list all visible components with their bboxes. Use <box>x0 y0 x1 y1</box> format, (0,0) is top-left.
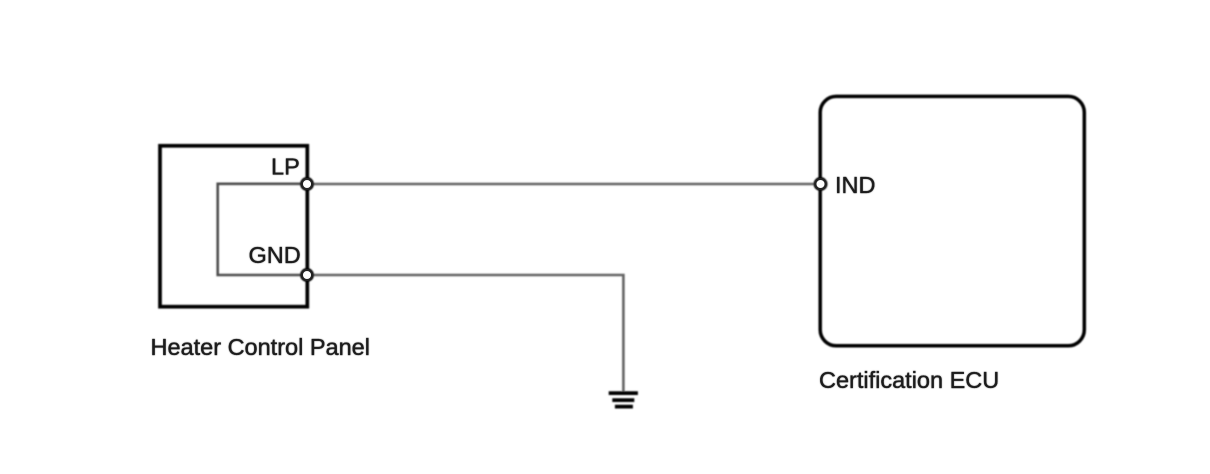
terminal LP <box>302 179 313 190</box>
wire LP to IND <box>307 183 819 186</box>
ground <box>609 393 638 407</box>
svg-text:GND: GND <box>249 242 301 268</box>
certification ECU box <box>820 96 1084 345</box>
terminal GND <box>302 270 313 281</box>
terminal GND ring <box>302 270 312 280</box>
svg-text:LP: LP <box>271 154 300 180</box>
svg-text:Heater Control Panel: Heater Control Panel <box>151 334 370 360</box>
ground bar 3 <box>615 405 633 409</box>
terminal IND ring <box>815 179 825 189</box>
terminal IND <box>815 179 826 190</box>
ground bar 2 <box>612 398 634 402</box>
connector inner box <box>218 184 307 275</box>
text halos (soft copies) <box>151 154 1000 394</box>
heater control panel box <box>160 146 307 307</box>
terminal LP ring <box>302 179 312 189</box>
wire GND to ground <box>307 275 623 391</box>
svg-text:Certification ECU: Certification ECU <box>819 367 999 393</box>
svg-text:IND: IND <box>835 172 875 198</box>
ground bar 1 <box>609 391 638 395</box>
